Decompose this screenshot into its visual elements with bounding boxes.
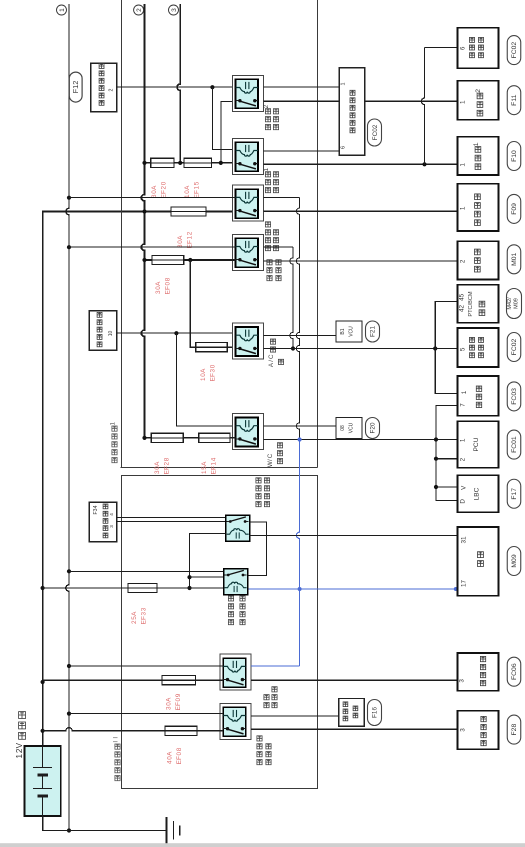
wire: EF08 out down to fuse EF30 and A/C relay switch	[190, 260, 235, 347]
svg-text:1: 1	[460, 438, 467, 442]
fuse EF33 25A row	[43, 587, 227, 589]
svg-text:1: 1	[460, 100, 467, 104]
svg-text:1: 1	[110, 422, 117, 426]
svg-text:2: 2	[187, 231, 194, 235]
wire: relay K1 switch out to solenoid valve2 load	[264, 100, 458, 102]
relay K9 water pump relay	[220, 654, 251, 690]
load box F17	[458, 475, 499, 512]
relay K7 front wiper intermittent relay	[226, 515, 250, 541]
svg-text:I: I	[113, 737, 120, 739]
svg-text:F12: F12	[71, 81, 80, 94]
load box F10	[458, 137, 499, 175]
load box FC02	[458, 328, 499, 367]
svg-text:/: /	[268, 360, 275, 362]
wire: ground rail net 1 (vertical, full height)	[66, 4, 69, 831]
svg-text:A: A	[200, 368, 207, 373]
wire: K5 switch out to compressor pin5 / PTC / HV box net	[264, 348, 458, 350]
battery 12V	[25, 746, 61, 816]
component: front wiper motor box F34	[89, 502, 116, 541]
svg-text:F: F	[176, 756, 183, 760]
wire: battery positive feed (vertical + relay feed row)	[43, 212, 236, 747]
wire: K3 coil right down to VCU F21 box	[296, 198, 299, 440]
connector capsule M01	[507, 245, 521, 274]
wire: blue branch to instrument pin17	[300, 588, 458, 590]
component: compressor controller connector box FC02	[339, 68, 365, 156]
load box FC03	[458, 376, 499, 416]
fuse row: EF20 EF15 chain	[145, 162, 236, 164]
svg-text:LBC: LBC	[473, 487, 480, 500]
wire: pressure switch pin2 to valve relay coils	[117, 86, 236, 88]
svg-text:VCU: VCU	[349, 422, 355, 433]
svg-text:A: A	[184, 185, 191, 190]
wire: branch up to compressor controller load pin 6	[425, 46, 458, 48]
svg-text:5: 5	[460, 347, 467, 351]
wire: relay K1 coil to compressor controller pin1	[264, 86, 339, 88]
svg-text:F: F	[165, 286, 172, 290]
svg-text:F: F	[161, 190, 168, 194]
svg-text:A: A	[155, 281, 162, 286]
node: taps on battery positive line	[41, 586, 45, 590]
wire: LV box pin10 to A/C relay coil	[117, 332, 236, 334]
svg-text:M09: M09	[511, 554, 518, 567]
fuse EF20 30A	[151, 158, 174, 167]
svg-text:F: F	[211, 466, 218, 470]
svg-text:F: F	[194, 190, 201, 194]
svg-text:8: 8	[165, 277, 172, 281]
relay K1 solenoid valve 2 relay	[233, 75, 264, 111]
node 3 circle label	[169, 5, 179, 15]
fuse EF15 10A	[184, 158, 212, 167]
relay K2 solenoid valve 1 relay	[233, 138, 264, 174]
svg-text:M09: M09	[514, 298, 520, 309]
svg-text:3: 3	[460, 728, 467, 732]
box: front cabin electrical box 2 enclosure	[122, 476, 318, 789]
wire: rail1 to K4 coil	[69, 246, 236, 248]
svg-text:M01: M01	[511, 252, 518, 265]
svg-text:PTC/BCM: PTC/BCM	[468, 291, 474, 317]
load box F28	[458, 711, 499, 750]
svg-text:F: F	[164, 466, 171, 470]
svg-text:F: F	[210, 373, 217, 377]
svg-text:8: 8	[164, 457, 171, 461]
wire: rail1 to K10 coil	[69, 713, 223, 715]
wire: K9 switch out to cooling pump load	[251, 679, 457, 681]
svg-text:3: 3	[459, 679, 466, 683]
box: front cabin electrical box 1 enclosure	[121, 0, 123, 468]
wire: K3 switch out to radiator fan load	[264, 210, 458, 212]
component: A/C pressure switch box	[91, 63, 117, 112]
connector capsule F11	[507, 86, 521, 115]
svg-text:1: 1	[473, 142, 480, 146]
wire: vertical distribution to PTC and HV box pin1	[435, 302, 457, 394]
svg-text:C: C	[268, 354, 275, 359]
load box FC06	[458, 653, 499, 691]
svg-text:D: D	[460, 499, 467, 504]
relay K10 battery water pump relay	[220, 703, 251, 739]
svg-text:A: A	[201, 461, 208, 466]
fuse EF33 25A	[128, 583, 157, 592]
connector capsule M09	[507, 547, 521, 576]
svg-text:I: I	[113, 741, 120, 743]
svg-text:9: 9	[175, 693, 182, 697]
svg-text:F20: F20	[370, 422, 377, 433]
fuse EF08 30A	[152, 255, 184, 264]
connector capsule FC01	[507, 430, 521, 459]
svg-text:A: A	[151, 185, 158, 190]
svg-text:1: 1	[15, 753, 24, 758]
fuse EF08b 40A	[165, 726, 197, 735]
fuse row EF08 to K4 switch	[145, 259, 236, 261]
connector F20 capsule	[366, 418, 380, 439]
connector capsule FC03	[507, 382, 521, 411]
wire: vertical distribution HVbox7 PCU LBC	[436, 406, 457, 501]
svg-text:6: 6	[341, 146, 347, 149]
svg-text:FC06: FC06	[511, 663, 518, 680]
svg-text:4: 4	[109, 513, 114, 516]
wire: battery minus to ground	[43, 816, 167, 831]
svg-text:/: /	[267, 459, 274, 461]
fuse EF14 15A	[199, 433, 230, 442]
svg-text:1: 1	[460, 206, 467, 210]
connector F21 capsule	[366, 321, 380, 342]
connector F12 capsule on rail 1	[69, 72, 82, 102]
wire: relay K2 coil to compressor controller pin6	[264, 150, 339, 152]
component: LV distribution box F16	[339, 699, 365, 727]
svg-text:3: 3	[109, 525, 114, 528]
svg-text:6: 6	[460, 46, 467, 50]
svg-text:F28: F28	[511, 724, 518, 736]
svg-text:F34: F34	[93, 505, 99, 514]
svg-text:F10: F10	[511, 150, 518, 162]
svg-text:F: F	[141, 616, 148, 620]
wire: K10 coil right to F16 box	[251, 715, 338, 717]
svg-text:1: 1	[341, 82, 347, 85]
connector capsule F09	[507, 194, 521, 223]
node 2 circle label	[134, 5, 144, 15]
svg-text:A: A	[167, 751, 174, 756]
svg-text:VCU: VCU	[349, 326, 355, 337]
wire: blue control net from K6 output	[296, 440, 299, 667]
connector FC02 capsule mid	[368, 119, 382, 146]
svg-text:2: 2	[475, 89, 482, 93]
component: VCU connector box B1 (F21)	[336, 321, 362, 342]
svg-text:B1: B1	[340, 328, 346, 334]
svg-text:FC03: FC03	[511, 388, 518, 405]
fuse EF28 30A	[151, 433, 183, 442]
wire: branch down to relay K6 coil	[176, 333, 235, 426]
svg-text:FC02: FC02	[511, 42, 518, 59]
wire: K7 coil left feed from EF33 node	[190, 534, 226, 588]
label: electrical box 1	[112, 458, 117, 463]
connector capsule F28	[507, 715, 521, 744]
svg-text:F09: F09	[511, 203, 518, 215]
wire: rail1 to K8 switch	[69, 570, 230, 572]
relay K6 W/C relay	[233, 414, 264, 450]
connector capsule F17	[507, 479, 521, 508]
relay K5 A/C relay	[233, 323, 264, 359]
load box M01	[458, 241, 499, 279]
load box M09	[458, 527, 499, 596]
fuse EF09 30A	[162, 676, 196, 685]
svg-text:31: 31	[461, 536, 468, 544]
relay K8 front wiper start-stop relay	[224, 569, 248, 595]
svg-text:8: 8	[176, 747, 183, 751]
connector capsule F10	[507, 142, 521, 171]
svg-text:F11: F11	[511, 94, 518, 105]
wire: blue branch to wiper relay2 coil	[248, 588, 300, 590]
connector F16 capsule	[368, 700, 382, 726]
fuse row EF28 EF14 to K6 switch	[145, 437, 236, 439]
node 1 circle label	[57, 5, 67, 15]
svg-text:08: 08	[340, 425, 346, 431]
svg-text:A: A	[131, 611, 138, 616]
load box F09	[458, 184, 499, 231]
svg-text:C: C	[267, 453, 274, 458]
svg-text:2: 2	[460, 457, 467, 461]
connector capsule FC02	[507, 36, 521, 65]
wire: rail net 3	[177, 4, 180, 163]
svg-text:A: A	[154, 461, 161, 466]
wire: rail1 to K3 coil	[69, 197, 236, 199]
svg-text:FC02: FC02	[511, 338, 518, 355]
wire: wiper motor pins to wiper relay1 switch	[117, 517, 230, 519]
svg-text:M42/: M42/	[507, 297, 513, 310]
svg-text:45: 45	[459, 293, 466, 301]
svg-text:W: W	[267, 461, 274, 467]
svg-text:1: 1	[59, 8, 66, 12]
wire: K9 coil right blue link	[251, 665, 299, 667]
load box M42/	[458, 285, 499, 323]
svg-text:A: A	[177, 235, 184, 240]
svg-text:F16: F16	[372, 707, 379, 718]
fuse EF12 30A	[171, 207, 206, 216]
fuse EF40 row to K10 switch	[43, 728, 224, 731]
svg-text:FC02: FC02	[372, 124, 379, 140]
load box FC02	[458, 28, 499, 68]
wire: K4 switch out to blower load	[264, 260, 458, 262]
svg-text:V: V	[15, 742, 24, 748]
svg-text:3: 3	[141, 607, 148, 611]
svg-text:10: 10	[108, 331, 114, 337]
wire: rail1 to K9 coil	[69, 665, 223, 667]
svg-text:0: 0	[161, 181, 168, 185]
component: VCU connector box 08 (F20)	[336, 418, 362, 439]
load box FC01	[458, 421, 499, 467]
relay K4 blower relay	[233, 234, 264, 270]
svg-text:A: A	[166, 697, 173, 702]
svg-text:1: 1	[263, 167, 270, 171]
component: low voltage distribution box	[89, 311, 116, 351]
wire: K7 coil right to instrument pin31	[250, 534, 458, 536]
ground symbol	[166, 817, 168, 844]
svg-text:1: 1	[460, 163, 467, 167]
relay K3 radiator fan relay	[233, 185, 264, 221]
node: junction dots on rail 1	[67, 196, 71, 200]
svg-text:3: 3	[171, 8, 178, 12]
wire: coil feed jog to relay2 coil and switch	[212, 87, 235, 149]
svg-text:7: 7	[460, 403, 467, 407]
connector capsule M42/	[507, 289, 522, 319]
svg-text:1: 1	[461, 390, 468, 394]
svg-text:FC01: FC01	[511, 436, 518, 453]
svg-text:2: 2	[263, 104, 270, 108]
label: electrical box 2	[115, 776, 120, 781]
svg-text:42: 42	[459, 305, 466, 313]
svg-text:2: 2	[459, 259, 466, 263]
svg-text:PCU: PCU	[473, 437, 480, 451]
svg-text:F21: F21	[370, 326, 377, 337]
svg-text:F: F	[187, 240, 194, 244]
svg-text:4: 4	[211, 457, 218, 461]
svg-text:2: 2	[136, 8, 143, 12]
wire: K6 coil right to VCU F20	[264, 425, 339, 427]
svg-text:F: F	[175, 702, 182, 706]
footer gray band	[0, 843, 525, 847]
svg-text:17: 17	[461, 580, 468, 588]
load box F11	[458, 81, 499, 120]
wire: K5 coil right to VCU F21	[264, 335, 339, 337]
wire: K10 switch out to battery pump load	[251, 728, 457, 730]
wire: K6 switch out to PCU/LBC/HV pin7 net	[264, 439, 436, 441]
wire: K4 coil right down to A/C relay output net	[264, 246, 293, 248]
svg-text:0: 0	[210, 364, 217, 368]
connector capsule FC06	[507, 657, 521, 686]
wire: relay K2 switch out to solenoid valve1 load and compressor ctrl pin6 net	[264, 163, 458, 165]
wire: rail net 2 (+12V feed)	[141, 4, 144, 438]
fuse EF30 10A	[196, 343, 228, 352]
svg-text:F17: F17	[511, 488, 518, 500]
svg-text:2: 2	[109, 88, 115, 91]
fuse EF09 row to K9 switch	[43, 679, 224, 681]
svg-text:5: 5	[194, 181, 201, 185]
connector capsule FC02	[507, 333, 521, 362]
wire: K7 switch out down to K8 switch out	[248, 522, 267, 575]
